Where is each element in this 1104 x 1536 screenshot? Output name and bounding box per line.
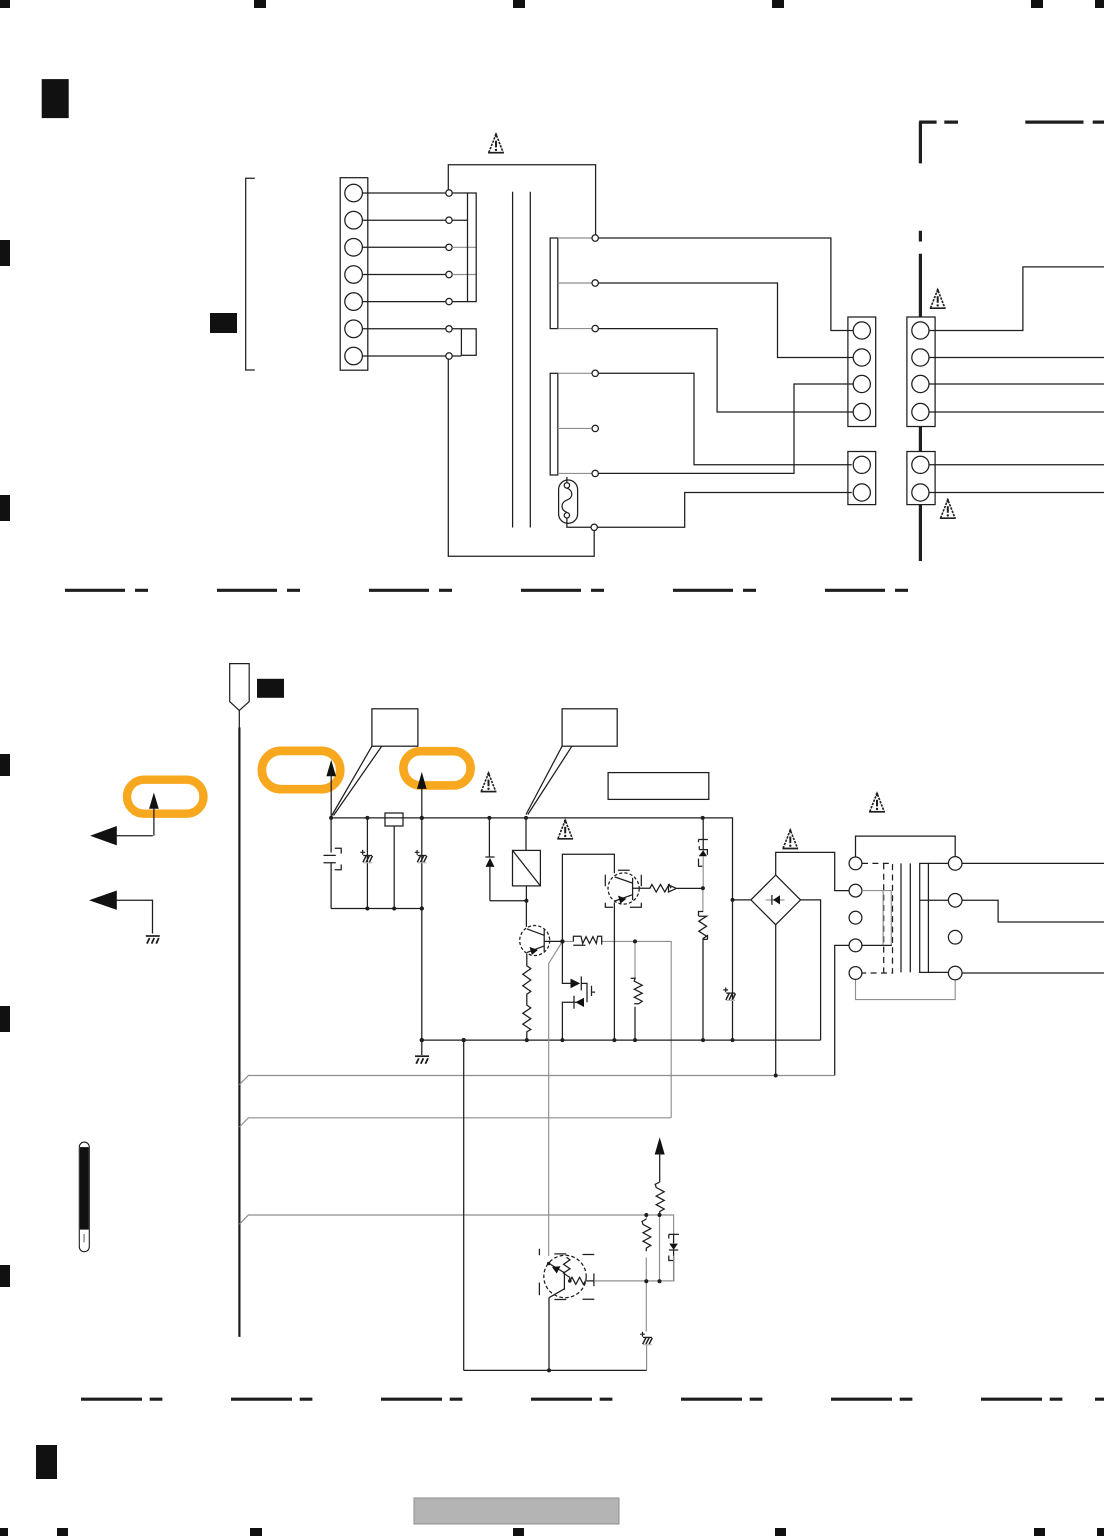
wire pin2 to primary <box>362 219 445 221</box>
registration mark top-right corner <box>1095 0 1104 8</box>
primary return wire <box>448 359 594 557</box>
wire CN2' pin2 out <box>929 492 1104 494</box>
opto-transistor Q2 path from base node <box>562 854 614 941</box>
S1 tap terminal 1 <box>592 235 598 241</box>
C1 bracket marks <box>335 848 342 870</box>
junction dots <box>329 816 778 1373</box>
terminal node 6 <box>446 326 452 332</box>
Q2 corner brackets <box>605 870 641 907</box>
bridge DC out (thick) <box>801 900 821 1040</box>
fuse tap wire to CN2 pin2 <box>597 493 851 528</box>
S2 tap terminal 3 <box>592 470 598 476</box>
label box <box>608 773 709 800</box>
T1 pin L4 <box>849 939 862 952</box>
registration mark top 2 <box>254 0 266 8</box>
T1 pin L3 <box>849 911 862 924</box>
T1 core <box>901 863 910 972</box>
registration mark bottom 6 <box>1034 1528 1045 1536</box>
wire pin1 to primary <box>362 192 445 194</box>
callout wedge 1 <box>332 746 382 815</box>
base resistor R3 (with brackets) <box>562 940 635 942</box>
transformer T901 primary winding 2 <box>461 329 476 356</box>
T1 out 3 <box>962 972 1104 974</box>
warning triangle (O3) <box>481 773 497 792</box>
terminal node 3 <box>446 244 452 250</box>
feedback rail 2 (gray) <box>239 1118 671 1127</box>
Q3 internals <box>563 1272 565 1290</box>
warning triangle (CN1') <box>930 289 946 308</box>
thermal fuse contact top <box>564 483 569 488</box>
page key block A (top left) <box>42 79 69 118</box>
registration mark left 1 <box>0 240 10 266</box>
thick secondary return drop <box>463 1040 465 1370</box>
thermometer capsule <box>79 1142 89 1252</box>
wire CN1' pin3 out <box>929 383 1104 385</box>
transformer T901 core <box>513 192 531 528</box>
output arrow A4 <box>655 1137 665 1154</box>
wire CN1' pin2 out <box>929 357 1104 359</box>
transformer T901 primary winding 1 <box>468 193 477 302</box>
bridge left lead <box>733 899 751 901</box>
terminal node 5 <box>446 298 452 304</box>
CN1' pin 4 <box>912 403 929 420</box>
registration mark bottom 4 <box>513 1528 524 1536</box>
T1 pin R3 <box>948 930 962 944</box>
connector CN101 pin 7 <box>345 347 363 365</box>
thermal fuse bottom lead to tap <box>567 518 591 527</box>
electrolytic cap E3 <box>723 988 735 1001</box>
connector CN101 pin 4 <box>345 266 363 284</box>
feedback rail 1 (gray) <box>239 1076 834 1085</box>
wire CN2' pin1 out <box>929 464 1104 466</box>
registration mark top-left corner <box>0 0 10 8</box>
node arrow up A3 (thick hot line) <box>421 786 423 818</box>
sub circuit ground rail (thick) <box>464 1369 647 1371</box>
wire pin7 to primary <box>362 355 445 357</box>
T1 pin L5 <box>849 967 862 980</box>
T1 secondary winding <box>920 863 929 972</box>
registration mark bottom 3 <box>250 1528 262 1536</box>
T1 shield dashed box <box>862 863 893 973</box>
thermal fuse TF901 body <box>559 480 578 523</box>
T1 pin L1 <box>849 857 862 870</box>
CN2' pin 1 <box>912 456 929 473</box>
electrolytic cap E1 <box>366 818 368 909</box>
off-page flag (AC line) <box>230 664 250 711</box>
registration mark left 5 <box>0 1265 10 1287</box>
thermal fuse element (S curve) <box>562 488 572 512</box>
bridge AC bottom <box>775 925 777 1076</box>
plug connector CN2 body <box>848 452 876 505</box>
CN1' pin 1 <box>912 322 929 339</box>
E4 electrolytic to ground <box>645 1281 647 1331</box>
secondary wire S2-1 to CN2 pin1 <box>598 373 851 465</box>
registration mark top 5 <box>1031 0 1043 8</box>
terminal node 7 <box>446 353 452 359</box>
connector CN101 pin 6 <box>345 320 363 338</box>
top feed wire <box>448 165 595 235</box>
wire CN1' pin1 out <box>929 267 1104 331</box>
registration mark bottom 2 <box>57 1528 68 1536</box>
CN1 pin 3 <box>853 375 870 392</box>
resistor R5 <box>655 1182 664 1215</box>
S2 tap terminal 1 <box>592 370 598 376</box>
Q3 emitter to rail (thick) <box>548 1298 550 1371</box>
page key block C (bottom left) <box>36 1445 57 1479</box>
bridge rectifier DB1 <box>751 875 801 925</box>
CN2' pin 2 <box>912 484 929 501</box>
warning triangle (bus) <box>557 820 573 839</box>
S2 tap terminal 2 (n.c.) <box>592 425 598 431</box>
CN1' pin 3 <box>912 375 929 392</box>
opto LED PC1 (zener style with brackets) <box>702 818 704 850</box>
feedback rail 3 (gray) <box>239 1215 673 1234</box>
shunt resistor R7 (gray feed) <box>634 941 636 978</box>
ground (L2) <box>146 936 160 944</box>
connector CN101 body <box>340 178 368 371</box>
page key block B (grid label) <box>210 313 237 333</box>
S1 tap terminal 3 <box>592 325 598 331</box>
primary through taps (rows 3,4) <box>452 247 476 274</box>
transistor Q1 (NPN) <box>520 926 550 956</box>
main bus wire <box>331 818 732 1040</box>
CN1 pin 4 <box>853 403 870 420</box>
primary tap stubs <box>452 193 467 356</box>
connector CN101 pin 5 <box>345 293 363 311</box>
Q1 emitter resistor R1 <box>523 954 531 1040</box>
L1 wire <box>116 835 153 837</box>
off-page arrow left L1 <box>90 826 117 845</box>
warning triangle (bridge) <box>782 830 798 849</box>
relay RY1 coil <box>525 818 527 851</box>
board boundary chain line (horizontal) <box>919 120 1104 123</box>
relay to Q1 collector <box>525 886 527 927</box>
Q3 corner brackets (dashed) <box>539 1249 594 1300</box>
base line to feedback (gray) <box>635 941 671 1117</box>
highlight oval O1 <box>127 780 204 814</box>
callout wedge 2 <box>526 746 572 814</box>
Q2 base resistor R4 <box>632 884 671 892</box>
bottom tap terminal <box>591 524 597 530</box>
secondary wire S2-3 to CN1 pin3 <box>598 384 853 473</box>
page key block D <box>257 679 284 698</box>
S2 tap wires <box>558 373 592 473</box>
T1 primary winding (gray bar) <box>862 891 891 946</box>
highlight oval O2 <box>262 751 340 789</box>
transformer T901 secondary winding S2 <box>550 373 558 475</box>
lower rail (gray) <box>594 1256 673 1281</box>
wire CN1' pin4 out <box>929 411 1104 413</box>
Q2 emitter (thick) to rail <box>613 903 615 1041</box>
plug connector CN1 body <box>848 317 876 427</box>
node arrow up A2 <box>330 774 332 818</box>
mid wire between rails (gray) <box>659 1215 661 1281</box>
terminal node 1 <box>446 190 452 196</box>
capacitor return rail <box>331 908 422 910</box>
fuse box F1 <box>385 813 403 826</box>
main ground rail (thick) <box>422 1039 821 1041</box>
S1 tap wires <box>558 238 592 329</box>
board boundary chain line (vertical) <box>919 122 922 561</box>
connector CN101 pin 1 <box>345 184 363 202</box>
opto-transistor Q2 <box>608 873 639 904</box>
L2 wire to ground <box>116 900 152 933</box>
CN2 pin 1 <box>853 456 870 473</box>
T1 frame bottom (gray) <box>856 979 956 999</box>
terminal node 4 <box>446 271 452 277</box>
node arrow up A1 <box>153 806 155 836</box>
thermal fuse contact bottom <box>564 513 569 518</box>
T1 out 1 <box>962 862 1104 864</box>
T1 pin L2 <box>849 884 862 897</box>
T1 primary bottom tap <box>862 944 892 946</box>
CN1' pin 2 <box>912 349 929 366</box>
Q1 base lead <box>544 940 562 942</box>
dual clamp diode DD1 <box>562 941 587 1040</box>
warning triangle (CN2') <box>940 499 956 518</box>
opto-transistor Q3 <box>544 1255 586 1297</box>
D1 to relay node <box>490 900 527 902</box>
registration mark bottom-right corner <box>1097 1528 1104 1536</box>
bracket (board left brace) <box>246 178 255 370</box>
registration mark left 4 <box>0 1006 10 1032</box>
T1 primary return to AC <box>835 945 849 1075</box>
AC main vertical line <box>238 711 240 728</box>
registration mark bottom-left corner <box>0 1528 8 1536</box>
off-page arrow left L2 <box>89 891 117 910</box>
section divider chain line <box>65 589 908 592</box>
wire pin4 to primary <box>362 274 445 276</box>
switching transformer T1 frame <box>856 836 956 857</box>
bottom chain line <box>81 1398 1104 1401</box>
ground (hot line) <box>415 1056 429 1064</box>
terminal node 2 <box>446 217 452 223</box>
diode D2 (with brackets) <box>669 1234 679 1281</box>
T1 pin R2 <box>948 894 962 908</box>
callout box 2 <box>562 709 617 746</box>
T1 pin R4 <box>948 966 962 980</box>
socket connector CN2' body <box>907 452 935 505</box>
safety capacitor C1 <box>324 818 336 909</box>
registration mark left 2 <box>0 495 10 521</box>
resistor R6 <box>645 1215 647 1219</box>
CN2 pin 2 <box>853 484 870 501</box>
transformer T901 secondary winding S1 <box>550 238 558 329</box>
registration mark top 4 <box>772 0 784 8</box>
secondary wire S1-2 to CN1 pin2 <box>598 283 853 358</box>
secondary wire S1-1 to CN1 pin1 <box>598 238 853 331</box>
CN1 pin 2 <box>853 349 870 366</box>
warning triangle (top feed) <box>488 134 504 153</box>
registration mark left 3 <box>0 754 10 776</box>
thermistor TH1 <box>702 888 704 911</box>
secondary wire S1-3 to CN1 pin4 <box>598 329 853 412</box>
wire pin6 to primary <box>362 328 445 330</box>
warning triangle (transformer) <box>869 793 885 812</box>
wire pin5 to primary <box>362 301 445 303</box>
feedback wire from Q1 base to Q3 (gray) <box>549 941 563 1256</box>
Q3 base line (gray) <box>594 1280 673 1282</box>
CN1 pin 1 <box>853 322 870 339</box>
highlight oval O3 <box>403 751 470 785</box>
R5 to rail3 <box>659 1214 661 1216</box>
T1 secondary taps <box>920 863 949 972</box>
connector CN101 pin 3 <box>345 239 363 257</box>
footer gray label box <box>414 1498 619 1524</box>
bridge AC top to transformer <box>776 852 849 890</box>
socket connector CN1' body <box>907 317 935 427</box>
callout box 1 <box>372 709 418 746</box>
F1 branch (thick) <box>393 826 395 909</box>
connector CN101 pin 2 <box>345 211 363 229</box>
registration mark top 3 <box>513 0 525 8</box>
thermal fuse lead top <box>566 477 568 483</box>
T1 out 2 <box>962 900 1104 922</box>
PC1 to base node (gray) <box>702 856 704 888</box>
wire pin3 to primary <box>362 246 445 248</box>
S1 tap terminal 2 <box>592 280 598 286</box>
electrolytic cap E2 (on hot line) <box>421 818 423 1055</box>
T1 pin R1 <box>948 857 962 871</box>
diode D1 <box>485 818 494 901</box>
registration mark bottom 5 <box>775 1528 786 1536</box>
